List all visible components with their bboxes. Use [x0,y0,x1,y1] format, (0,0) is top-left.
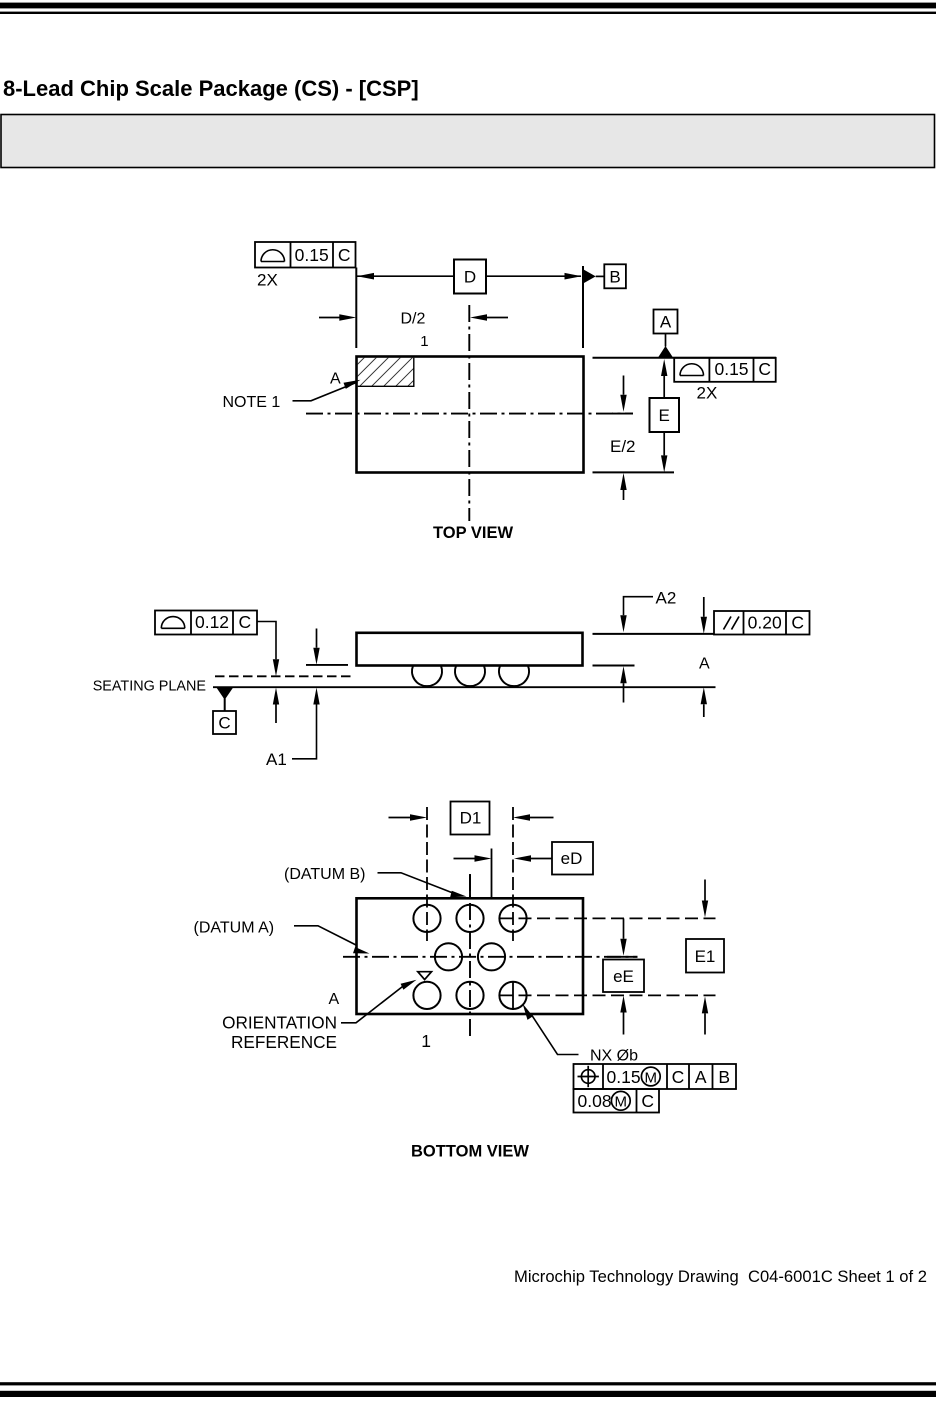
dimension label box D [454,260,486,294]
E1 dimension upper arrow [704,880,706,901]
D/2 dimension right arrow [487,317,508,319]
solder ball row3 col5 [499,982,526,1009]
svg-text:0.12: 0.12 [195,612,229,632]
datum B leader [596,275,605,277]
vertical dash through lower-right ball [512,982,514,1010]
feature control frame (profile 0.15 C) upper-left [255,242,356,268]
body bottom extension line (left, for A1) [306,664,348,666]
svg-text:E/2: E/2 [610,437,636,456]
eE label box [603,960,644,993]
E1 dimension lower arrow [702,996,708,1013]
svg-text:C: C [758,359,771,379]
svg-text:A: A [330,371,341,388]
dimension D left arrowhead [357,273,374,280]
datum A stem [665,334,667,347]
datum C stem [224,699,226,712]
M circle modifier row 2 [611,1091,630,1110]
svg-text:eD: eD [561,849,583,868]
svg-text:0.20: 0.20 [748,613,782,633]
svg-text:E: E [659,406,670,425]
pin 1 index hatched area (NOTE 1) [358,358,414,387]
svg-text:A: A [695,1067,707,1087]
datum C label box [213,711,236,734]
solder ball row2 col4 [478,943,505,970]
footer thick rule [0,1391,936,1397]
A2 leader and upper arrow [624,597,654,616]
svg-text:D: D [464,267,476,286]
A1 lower arrow with leader [313,688,319,705]
E1 label box [686,939,724,973]
top extension line right of body [593,357,777,359]
D1 dimension right arrow [530,817,554,819]
svg-text:C: C [238,612,251,632]
svg-text:0.15: 0.15 [295,245,329,265]
D1 dashed extension line, left (through ball A1) [426,807,428,941]
top view vertical center line [468,305,470,521]
header thin rule [0,12,936,14]
top extension line right of side body [593,633,715,635]
dimension A upper arrow [703,597,705,617]
svg-text:SEATING PLANE: SEATING PLANE [93,679,206,695]
svg-text:A: A [660,313,672,332]
eD dimension left arrow [454,858,475,860]
svg-text:A1: A1 [266,750,287,769]
eD dimension right arrow [531,858,552,860]
top view horizontal center line [306,413,633,415]
solder ball row1 col3 (pin A, on center line) [456,905,483,932]
svg-text:8-Lead Chip Scale Package (CS): 8-Lead Chip Scale Package (CS) - [CSP] [3,76,419,101]
row extension dashed line, lower [500,994,716,996]
header top thick rule [0,3,936,9]
NOTE 1 leader line [293,382,358,401]
svg-text:eE: eE [613,967,634,986]
footer thin rule [0,1382,936,1385]
svg-text:2X: 2X [257,271,278,290]
svg-text:M: M [615,1094,628,1111]
datum C filled triangle [216,687,233,699]
E/2 lower arrow (below bottom edge) [620,473,626,490]
side view package body outline [357,633,583,666]
svg-text:B: B [609,267,620,286]
solder ball 3 (side view) [499,666,529,686]
svg-text:C: C [218,714,230,733]
eE dimension lower arrow [620,996,626,1013]
NX Ob leader arrow [531,1014,579,1055]
bottom view package body outline [357,898,584,1014]
svg-text:C: C [672,1067,685,1087]
svg-text:B: B [718,1067,730,1087]
solder ball row3 col3 [456,982,483,1009]
D1 dimension left arrow [389,817,411,819]
leader from 0.12 frame down to dashed line [257,622,276,660]
M circle modifier [641,1067,660,1086]
svg-text:D/2: D/2 [401,311,426,328]
solder ball 2 (side view) [455,666,485,686]
seating plane dashed tolerance line [215,675,351,677]
svg-text:E1: E1 [695,947,716,966]
svg-text:(DATUM B): (DATUM B) [284,866,365,883]
datum A filled triangle [658,346,673,357]
dimension E lower arrow [663,432,665,455]
svg-text:0.15: 0.15 [607,1067,641,1087]
bottom view vertical center line [469,874,471,1037]
feature control frame (profile 0.12 C) [155,611,257,635]
svg-text:BOTTOM VIEW: BOTTOM VIEW [411,1143,529,1161]
solder ball 1 (side view) [412,666,442,686]
seating plane line [213,686,716,688]
bottom extension line right of body [593,471,675,473]
datum A leader arrow [294,926,356,945]
svg-text:M: M [645,1069,658,1086]
svg-text:1: 1 [421,1031,431,1051]
A2 lower arrow [620,666,626,683]
datum B filled triangle [584,270,596,283]
solder ball row1 col1 [413,905,440,932]
datum B leader arrow [378,873,454,893]
feature control frame (parallelism 0.20 C) [714,611,810,635]
dimension D right arrowhead [565,273,582,280]
svg-text:A: A [699,656,710,673]
svg-text:1: 1 [420,333,428,350]
right extension line above body [582,266,584,348]
svg-text:2X: 2X [697,384,718,403]
svg-text:0.15: 0.15 [714,359,748,379]
row extension dashed line, upper [500,917,716,919]
solder ball row3 col1 (pin 1) [413,982,440,1009]
svg-text:D1: D1 [460,809,482,828]
A1 upper arrow [316,629,318,648]
grey note box [1,115,935,168]
left extension line above body [355,268,357,349]
dimension A lower arrow [701,687,707,704]
datum B label box [604,264,626,288]
svg-text:REFERENCE: REFERENCE [231,1032,337,1052]
position feature control frame row 1 [574,1064,737,1089]
svg-text:C: C [641,1091,654,1111]
eD solid extension line [491,849,493,898]
position symbol [581,1070,595,1084]
svg-text:A2: A2 [656,589,677,608]
svg-text:A: A [329,991,340,1008]
eD label box [552,842,593,875]
flatness zone lower arrow [273,688,279,705]
svg-text:ORIENTATION: ORIENTATION [222,1013,337,1033]
D/2 dimension left arrow [319,317,340,319]
svg-text:C: C [338,245,351,265]
svg-text:TOP VIEW: TOP VIEW [433,524,514,542]
svg-text:0.08: 0.08 [578,1091,612,1111]
svg-text:NOTE 1: NOTE 1 [223,394,281,411]
D1 label box [451,802,490,835]
eE dimension upper arrow [623,919,625,939]
svg-text:C: C [791,613,804,633]
dimension D line, left part [357,275,454,277]
position feature control frame row 2 [574,1089,660,1113]
svg-text:NX Øb: NX Øb [590,1048,638,1065]
E/2 upper arrow [623,376,625,395]
feature control frame (profile 0.15 C) right [674,358,776,382]
orientation leader arrow [341,985,405,1023]
solder ball row2 col2 [435,943,462,970]
solder ball row1 col5 [499,905,526,932]
dimension D line, right part [486,275,581,277]
NOTE 1 leader arrowhead [344,380,361,389]
top view package body outline [357,357,584,473]
D1 dashed extension line, right (through ball) [512,807,514,941]
dimension E upper arrow [661,359,667,376]
datum A label box [654,310,678,334]
dimension label box E [650,398,680,432]
svg-text:(DATUM A): (DATUM A) [194,920,275,937]
bottom extension line right of side body [593,665,635,667]
bottom view horizontal center line [343,956,638,958]
svg-text:Microchip Technology Drawing: Microchip Technology Drawing C04-6001C S… [514,1267,927,1286]
orientation reference open triangle [418,972,432,980]
